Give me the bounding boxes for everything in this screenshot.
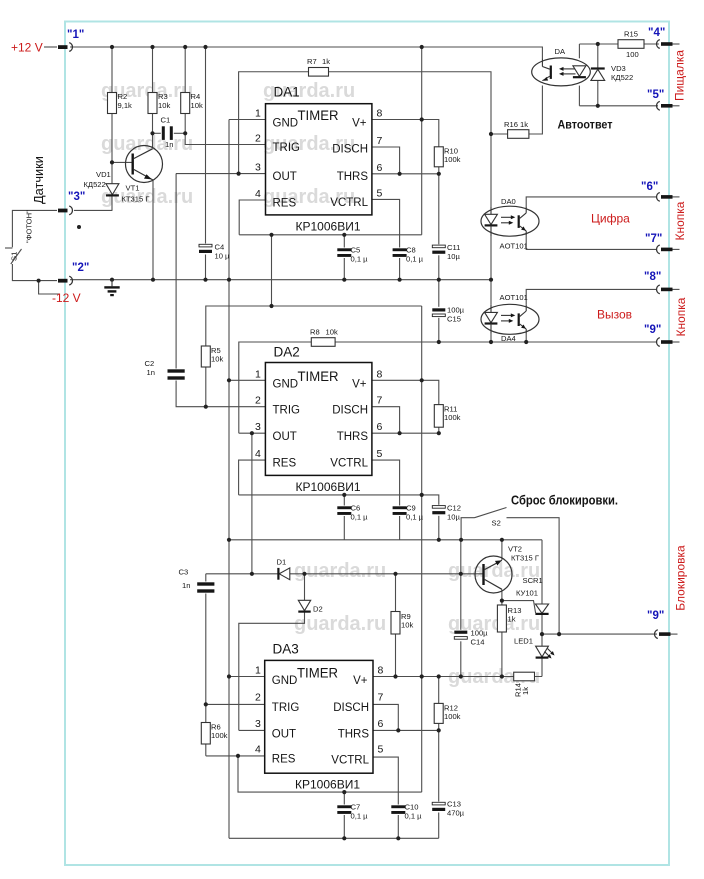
svg-text:2: 2 bbox=[255, 395, 261, 407]
wire opto DA0 collector to terminal6 bbox=[526, 197, 656, 207]
svg-text:TIMER: TIMER bbox=[297, 666, 338, 681]
node terminal 2 bbox=[58, 262, 89, 285]
svg-text:DA4: DA4 bbox=[501, 334, 516, 343]
wire SCR1 anode column bbox=[541, 540, 543, 604]
svg-text:"1": "1" bbox=[67, 29, 84, 41]
svg-text:THRS: THRS bbox=[337, 431, 369, 443]
svg-text:-12 V: -12 V bbox=[52, 291, 81, 305]
wire bbox=[541, 658, 543, 677]
svg-text:КД522: КД522 bbox=[611, 73, 633, 82]
resistor R10 bbox=[434, 147, 443, 167]
wire sensor stub bbox=[39, 281, 60, 294]
resistor R15 bbox=[618, 40, 644, 49]
svg-text:10µ: 10µ bbox=[447, 252, 460, 261]
svg-text:RES: RES bbox=[273, 198, 297, 210]
svg-text:1n: 1n bbox=[182, 581, 190, 590]
svg-text:C12: C12 bbox=[447, 504, 461, 513]
svg-text:Автоответ: Автоответ bbox=[558, 120, 613, 132]
svg-text:0,1 µ: 0,1 µ bbox=[351, 513, 369, 522]
svg-text:5: 5 bbox=[377, 448, 383, 460]
svg-text:RES: RES bbox=[273, 458, 297, 470]
svg-text:THRS: THRS bbox=[337, 171, 369, 183]
wire DA1 pin3 OUT stub bbox=[176, 173, 266, 175]
transistor VT1 bbox=[126, 146, 163, 183]
wire V+ distribution column upper bbox=[421, 47, 423, 235]
svg-text:Датчики: Датчики bbox=[31, 156, 46, 204]
wire DA3 pin2 TRIG stub bbox=[206, 703, 265, 705]
wire C4 branch bbox=[205, 47, 207, 280]
svg-text:КР1006ВИ1: КР1006ВИ1 bbox=[295, 778, 360, 792]
svg-text:VD3: VD3 bbox=[611, 64, 626, 73]
svg-text:100µ: 100µ bbox=[471, 629, 489, 638]
svg-text:10k: 10k bbox=[191, 101, 203, 110]
capacitor C10 bbox=[391, 805, 406, 816]
svg-text:TRIG: TRIG bbox=[272, 702, 300, 714]
svg-text:R2: R2 bbox=[118, 92, 128, 101]
svg-text:1: 1 bbox=[255, 665, 261, 677]
svg-text:"6": "6" bbox=[641, 181, 658, 193]
svg-text:"ФОТОН": "ФОТОН" bbox=[25, 210, 34, 243]
IC U2 timer DA2 box bbox=[265, 363, 372, 476]
svg-text:100k: 100k bbox=[444, 413, 461, 422]
svg-text:TIMER: TIMER bbox=[298, 108, 339, 123]
resistor R4 bbox=[181, 93, 190, 114]
opto DA bbox=[532, 58, 591, 86]
svg-text:7: 7 bbox=[377, 395, 383, 407]
svg-text:8: 8 bbox=[377, 108, 383, 120]
resistor R14 bbox=[514, 672, 535, 681]
svg-text:V+: V+ bbox=[352, 118, 367, 130]
IC U1 timer DA1 box bbox=[266, 104, 372, 215]
wire DA1 pin5 VCTRL stub bbox=[372, 199, 400, 279]
node terminal 4 bbox=[648, 27, 680, 48]
svg-text:10k: 10k bbox=[211, 355, 223, 364]
svg-text:"3": "3" bbox=[68, 191, 85, 203]
svg-text:КУ101: КУ101 bbox=[516, 589, 538, 598]
wire S1 to terminal2 bbox=[12, 264, 57, 281]
wire DA2 pin1 GND stub bbox=[229, 379, 265, 381]
capacitor C15 (polar) bbox=[432, 307, 446, 318]
svg-text:C11: C11 bbox=[447, 243, 460, 252]
wire D2 to DA3 OUT bbox=[239, 611, 305, 730]
wire DA1 pin4 RES stub bbox=[239, 200, 265, 235]
resistor R16 bbox=[508, 130, 529, 139]
wire DA3 pin3 OUT stub bbox=[239, 729, 265, 731]
node terminal 7 bbox=[645, 233, 680, 254]
ground bbox=[104, 280, 119, 297]
resistor R9 bbox=[391, 612, 400, 635]
svg-text:8: 8 bbox=[377, 369, 383, 381]
wire +12V rail bbox=[70, 47, 542, 58]
wire opto DA4 collector to terminal8 bbox=[526, 289, 656, 305]
capacitor C5 bbox=[337, 248, 352, 259]
svg-text:100k: 100k bbox=[444, 712, 461, 721]
wire opto DA4 LED cathode bbox=[490, 334, 492, 342]
svg-text:"8": "8" bbox=[644, 271, 661, 283]
svg-text:C14: C14 bbox=[471, 638, 485, 647]
wire DA2 pin4 RES stub bbox=[239, 460, 266, 495]
svg-text:"5": "5" bbox=[647, 89, 664, 101]
svg-text:Цифра: Цифра bbox=[591, 212, 630, 226]
svg-text:C13: C13 bbox=[447, 800, 461, 809]
wire node 306 bbox=[206, 306, 422, 407]
wire opto DA4 emitter bbox=[525, 334, 527, 342]
wire R3 / VT1 collector branch bbox=[152, 47, 154, 149]
svg-text:7: 7 bbox=[378, 692, 384, 704]
svg-text:6: 6 bbox=[377, 162, 383, 174]
svg-text:VT1: VT1 bbox=[126, 184, 140, 193]
svg-text:10k: 10k bbox=[158, 101, 170, 110]
wire opto DA4 LED anode bbox=[490, 280, 492, 305]
svg-text:Блокировка: Блокировка bbox=[674, 545, 688, 611]
node terminal 8 bbox=[644, 271, 680, 294]
wire R11 bottom bbox=[438, 427, 440, 433]
svg-text:Сброс блокировки.: Сброс блокировки. bbox=[511, 494, 618, 508]
wire ground rail bbox=[70, 279, 491, 281]
svg-text:КТ315 Г: КТ315 Г bbox=[511, 554, 539, 563]
svg-text:TIMER: TIMER bbox=[298, 369, 339, 384]
svg-text:КД522: КД522 bbox=[84, 180, 106, 189]
wire S1 contact tick bbox=[5, 247, 12, 249]
svg-text:10µ: 10µ bbox=[447, 513, 460, 522]
wire DA1 pin2 TRIG stub bbox=[185, 133, 265, 144]
wire node9 to terminal9 bbox=[542, 633, 657, 635]
thyristor SCR1 bbox=[535, 604, 548, 613]
svg-text:C4: C4 bbox=[215, 243, 225, 252]
wire terminal3 to VD1 bbox=[74, 209, 112, 211]
svg-text:10k: 10k bbox=[401, 621, 413, 630]
wire DA2 OUT down to D1 net bbox=[251, 433, 253, 574]
wire DA3 pin1 GND stub bbox=[229, 676, 265, 678]
wire DA3 pin8 V+ net bbox=[373, 676, 542, 678]
svg-text:3: 3 bbox=[255, 162, 261, 174]
resistor R3 bbox=[148, 93, 157, 114]
svg-text:Кнопка: Кнопка bbox=[674, 297, 688, 336]
wire opto DA LED anode bbox=[578, 44, 580, 58]
svg-text:GND: GND bbox=[273, 118, 299, 130]
svg-text:Вызов: Вызов bbox=[597, 308, 632, 322]
wire R9 branch bbox=[395, 574, 397, 677]
svg-text:0,1 µ: 0,1 µ bbox=[351, 255, 369, 264]
wire SCR1 cathode bbox=[541, 614, 543, 635]
svg-text:"7": "7" bbox=[645, 233, 662, 245]
wire R4 branch bbox=[184, 47, 186, 133]
resistor R8 bbox=[311, 338, 335, 347]
opto DA0 bbox=[481, 206, 539, 236]
svg-text:TRIG: TRIG bbox=[273, 405, 301, 417]
capacitor C12 (polar) bbox=[432, 505, 446, 516]
svg-text:5: 5 bbox=[377, 187, 383, 199]
svg-text:C3: C3 bbox=[179, 568, 189, 577]
wire DA3 pin6 THRS stub bbox=[373, 729, 439, 731]
svg-text:DA2: DA2 bbox=[274, 345, 300, 360]
resistor R11 bbox=[434, 405, 443, 428]
svg-text:D1: D1 bbox=[277, 558, 287, 567]
wire R10 to C11 column bbox=[438, 167, 440, 280]
svg-text:VCTRL: VCTRL bbox=[331, 755, 369, 767]
wire C3-R6 column bbox=[205, 574, 207, 756]
wire C6 branch bbox=[343, 495, 345, 540]
wire ground column bbox=[228, 120, 230, 839]
node terminal 5 bbox=[647, 89, 680, 110]
wire below DA2 bbox=[239, 495, 439, 540]
capacitor C3 bbox=[197, 582, 214, 594]
wire R7 net (DA1 OUT to opto DA) bbox=[239, 72, 491, 174]
capacitor C14 (polar) bbox=[454, 630, 468, 642]
svg-text:guarda.ru: guarda.ru bbox=[294, 613, 386, 635]
svg-text:1n: 1n bbox=[147, 368, 155, 377]
resistor R6 bbox=[201, 723, 210, 745]
wire DA2 pin8 V+ stub bbox=[372, 380, 439, 404]
capacitor C6 bbox=[337, 506, 352, 517]
svg-text:DA: DA bbox=[555, 47, 566, 56]
svg-text:7: 7 bbox=[377, 135, 383, 147]
opto DA4 bbox=[481, 304, 539, 334]
wire buzzer loop top bbox=[579, 43, 659, 45]
svg-text:RES: RES bbox=[272, 754, 296, 766]
svg-text:C1: C1 bbox=[161, 116, 171, 125]
wire DA2 pin6 THRS stub bbox=[372, 432, 439, 434]
wire C14 column bbox=[460, 540, 462, 677]
svg-text:100k: 100k bbox=[211, 731, 228, 740]
svg-text:DISCH: DISCH bbox=[333, 702, 369, 714]
diode VD1 bbox=[106, 184, 119, 195]
wire DA1 pin8 V+ stub bbox=[372, 120, 439, 147]
svg-text:S2: S2 bbox=[492, 519, 501, 528]
svg-text:AOT101: AOT101 bbox=[500, 293, 528, 302]
capacitor C7 bbox=[337, 805, 352, 816]
svg-text:R7: R7 bbox=[307, 57, 317, 66]
LED LED1 bbox=[536, 646, 549, 657]
capacitor C9 bbox=[392, 506, 407, 517]
node terminal 9a bbox=[644, 324, 680, 346]
svg-text:SCR1: SCR1 bbox=[523, 576, 543, 585]
svg-text:470µ: 470µ bbox=[447, 809, 465, 818]
capacitor C13 (polar) bbox=[432, 802, 446, 813]
svg-text:C6: C6 bbox=[351, 504, 361, 513]
wire opto DA LED cathode bbox=[578, 86, 580, 106]
diode D1 bbox=[279, 568, 290, 580]
svg-text:DA3: DA3 bbox=[273, 642, 299, 657]
wire +12V lead bbox=[44, 46, 57, 48]
svg-text:Кнопка: Кнопка bbox=[673, 201, 687, 240]
svg-text:4: 4 bbox=[255, 188, 261, 200]
svg-text:C15: C15 bbox=[447, 315, 461, 324]
svg-text:0,1 µ: 0,1 µ bbox=[406, 255, 424, 264]
diode D2 bbox=[298, 600, 310, 610]
svg-text:THRS: THRS bbox=[338, 729, 370, 741]
svg-text:C2: C2 bbox=[145, 359, 155, 368]
svg-text:КТ315 Г: КТ315 Г bbox=[122, 195, 150, 204]
svg-text:OUT: OUT bbox=[273, 431, 297, 443]
IC DA3 pin texts bbox=[272, 666, 370, 767]
wire VT2 collector bbox=[501, 540, 503, 560]
wire S2 left bbox=[461, 518, 474, 540]
svg-text:DA1: DA1 bbox=[274, 85, 300, 100]
IC DA2 pin texts bbox=[273, 369, 369, 470]
IC DA1 pin texts bbox=[273, 108, 369, 210]
wire S2 right bbox=[507, 518, 560, 634]
svg-text:1: 1 bbox=[255, 369, 261, 381]
wire opto DA0 LED cathode bbox=[490, 236, 492, 280]
svg-text:1: 1 bbox=[255, 108, 261, 120]
wire VT1 emitter to ground rail bbox=[152, 180, 154, 280]
wire R8 net bbox=[239, 342, 656, 433]
wire buzzer loop bottom bbox=[579, 105, 658, 107]
svg-text:4: 4 bbox=[255, 448, 261, 460]
svg-text:5: 5 bbox=[378, 744, 384, 756]
svg-text:1k: 1k bbox=[322, 57, 330, 66]
wire link 234-306 bbox=[271, 235, 273, 306]
wire below DA1 (RES to V+ column) bbox=[239, 234, 422, 236]
wire C7 branch bbox=[343, 792, 345, 838]
resistor R5 bbox=[201, 346, 210, 367]
svg-text:"2": "2" bbox=[72, 262, 89, 274]
svg-text:100k: 100k bbox=[444, 155, 461, 164]
svg-text:VCTRL: VCTRL bbox=[330, 458, 368, 470]
wire DA3 pin7 DISCH stub bbox=[373, 704, 398, 730]
svg-text:"9": "9" bbox=[647, 610, 664, 622]
wire bbox=[174, 132, 185, 134]
svg-text:1k: 1k bbox=[521, 687, 530, 695]
svg-text:OUT: OUT bbox=[272, 729, 296, 741]
wire D2 branch bbox=[304, 574, 306, 612]
wire bottom rail bbox=[229, 837, 439, 839]
svg-text:6: 6 bbox=[377, 421, 383, 433]
node terminal 3 bbox=[58, 191, 85, 215]
switch S2 lever bbox=[475, 508, 507, 518]
svg-text:R8: R8 bbox=[310, 328, 320, 337]
wire DA2 pin5 VCTRL stub bbox=[372, 460, 400, 540]
svg-text:LED1: LED1 bbox=[514, 637, 533, 646]
svg-text:DA0: DA0 bbox=[501, 197, 516, 206]
svg-text:VCTRL: VCTRL bbox=[330, 197, 368, 209]
svg-text:100µ: 100µ bbox=[447, 306, 465, 315]
svg-text:C10: C10 bbox=[405, 803, 419, 812]
wire V+ distribution column lower bbox=[421, 306, 423, 792]
wire opto DA0 emitter to terminal7 bbox=[526, 236, 656, 250]
IC U3 timer DA3 box bbox=[265, 660, 373, 773]
wire VT1 base bbox=[112, 161, 132, 163]
wire DA1 pin1 GND stub bbox=[229, 119, 266, 121]
svg-text:VT2: VT2 bbox=[508, 545, 522, 554]
svg-text:8: 8 bbox=[378, 665, 384, 677]
diode VD3 bbox=[591, 67, 605, 69]
svg-text:9,1k: 9,1k bbox=[118, 101, 133, 110]
svg-text:AOT101: AOT101 bbox=[500, 242, 528, 251]
svg-text:6: 6 bbox=[378, 718, 384, 730]
svg-text:КР1006ВИ1: КР1006ВИ1 bbox=[296, 480, 361, 494]
svg-text:V+: V+ bbox=[352, 379, 367, 391]
svg-text:D2: D2 bbox=[313, 605, 323, 614]
svg-text:Пищалка: Пищалка bbox=[673, 50, 687, 101]
wire C5 branch bbox=[343, 235, 345, 280]
svg-text:1n: 1n bbox=[165, 140, 173, 149]
svg-text:C9: C9 bbox=[406, 504, 416, 513]
wire R12-C13 column bbox=[438, 677, 440, 839]
wire lower rail bbox=[229, 539, 542, 541]
resistor R12 bbox=[434, 703, 443, 723]
wire R13 branch bbox=[501, 601, 503, 677]
resistor R2 bbox=[108, 93, 117, 114]
svg-text:DISCH: DISCH bbox=[332, 405, 368, 417]
wire VT2 emitter bbox=[501, 590, 503, 601]
svg-text:R15: R15 bbox=[624, 30, 638, 39]
wire DA3 RES loop bbox=[238, 756, 422, 792]
svg-text:GND: GND bbox=[272, 675, 298, 687]
svg-text:10k: 10k bbox=[326, 328, 338, 337]
wire DA3 pin4 RES stub bbox=[206, 755, 265, 757]
transistor VT2 bbox=[475, 556, 512, 593]
resistor R7 bbox=[309, 68, 329, 77]
resistor R13 bbox=[497, 605, 506, 632]
wire DA3 pin5 VCTRL stub bbox=[373, 757, 398, 838]
capacitor C2 bbox=[168, 369, 185, 381]
wire sensor S1 loop bbox=[12, 210, 57, 247]
wire DA2 pin7 DISCH stub bbox=[372, 407, 400, 434]
svg-text:3: 3 bbox=[255, 421, 261, 433]
svg-text:R3: R3 bbox=[158, 92, 168, 101]
svg-text:"4": "4" bbox=[648, 27, 665, 39]
svg-text:2: 2 bbox=[255, 692, 261, 704]
node terminal 6 bbox=[641, 181, 680, 201]
capacitor C4 (polar) bbox=[199, 244, 213, 255]
svg-text:2: 2 bbox=[255, 133, 261, 145]
capacitor C1 bbox=[161, 126, 173, 141]
capacitor C11 (polar) bbox=[432, 244, 446, 255]
wire DA2 pin2 TRIG stub / C2 bbox=[176, 174, 265, 407]
svg-text:DISCH: DISCH bbox=[332, 144, 368, 156]
svg-text:0,1 µ: 0,1 µ bbox=[406, 513, 424, 522]
svg-text:GND: GND bbox=[273, 379, 299, 391]
svg-text:OUT: OUT bbox=[273, 171, 297, 183]
wire DA2 pin3 OUT stub bbox=[239, 432, 266, 434]
svg-text:V+: V+ bbox=[353, 675, 368, 687]
svg-text:S1: S1 bbox=[10, 252, 19, 261]
node terminal 9b bbox=[647, 610, 678, 639]
switch S1 lever bbox=[11, 249, 22, 264]
svg-text:VD1: VD1 bbox=[96, 170, 111, 179]
svg-text:КР1006ВИ1: КР1006ВИ1 bbox=[296, 220, 361, 234]
wire LED1 leads bbox=[541, 634, 543, 646]
svg-text:3: 3 bbox=[255, 718, 261, 730]
svg-text:100: 100 bbox=[626, 50, 639, 59]
svg-text:guarda.ru: guarda.ru bbox=[294, 560, 386, 582]
wire VT2 gate drive bbox=[502, 601, 536, 613]
svg-text:4: 4 bbox=[255, 744, 261, 756]
wire DA1 pin6 THRS stub bbox=[372, 173, 439, 175]
svg-text:0,1 µ: 0,1 µ bbox=[351, 812, 369, 821]
svg-text:C5: C5 bbox=[351, 246, 361, 255]
wire C15 branch bbox=[438, 280, 440, 342]
svg-text:TRIG: TRIG bbox=[273, 142, 301, 154]
capacitor C8 bbox=[392, 248, 407, 259]
wire D1 base net bbox=[206, 573, 484, 575]
wire DA1 pin7 DISCH stub bbox=[372, 147, 400, 174]
svg-text:0,1 µ: 0,1 µ bbox=[405, 812, 423, 821]
svg-text:C8: C8 bbox=[406, 246, 416, 255]
svg-text:C7: C7 bbox=[351, 803, 361, 812]
svg-text:10 µ: 10 µ bbox=[215, 252, 231, 261]
node terminal 1 bbox=[58, 29, 84, 51]
svg-text:R16 1k: R16 1k bbox=[504, 120, 528, 129]
wire R16 net bbox=[491, 86, 542, 207]
wire C1 leads bbox=[153, 132, 162, 134]
svg-text:R4: R4 bbox=[191, 92, 201, 101]
wire VD3 branch bbox=[597, 44, 599, 106]
wire R2 branch bbox=[111, 47, 113, 210]
svg-text:"9": "9" bbox=[644, 324, 661, 336]
